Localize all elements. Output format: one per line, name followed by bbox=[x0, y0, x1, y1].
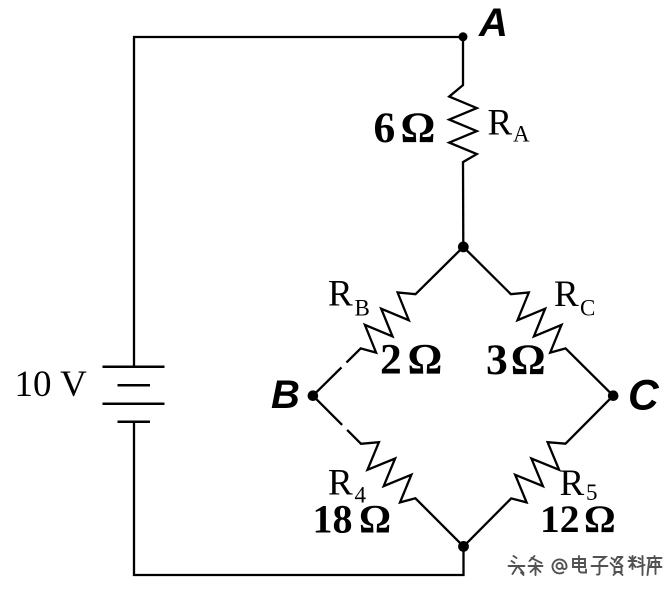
svg-text:Ω: Ω bbox=[359, 497, 391, 542]
watermark glyph 头 bbox=[509, 556, 525, 575]
watermark text: toutiao@dianzi ziliaoku bbox=[509, 556, 662, 575]
resistor R4 zigzag on diagonal B-bottom bbox=[313, 396, 464, 547]
svg-text:6: 6 bbox=[374, 104, 396, 152]
wire: RA to center node bbox=[462, 162, 465, 247]
svg-text:A: A bbox=[513, 122, 530, 147]
node C junction dot bbox=[608, 390, 619, 401]
svg-text:B: B bbox=[271, 373, 300, 417]
battery V1 long plate 1 bbox=[103, 366, 165, 369]
svg-text:3: 3 bbox=[486, 336, 508, 384]
wire gap artifact on B-R4 diagonal bbox=[339, 423, 349, 433]
node A junction dot bbox=[459, 32, 468, 41]
watermark glyph 库 bbox=[648, 556, 662, 575]
svg-text:Ω: Ω bbox=[584, 497, 616, 541]
wire gap artifact on B-RB diagonal bbox=[339, 360, 349, 370]
svg-text:Ω: Ω bbox=[511, 336, 546, 384]
resistor RA zigzag bbox=[449, 85, 477, 162]
svg-text:R: R bbox=[328, 274, 353, 315]
svg-text:Ω: Ω bbox=[401, 104, 436, 152]
center node junction dot bbox=[458, 242, 469, 253]
svg-text:2: 2 bbox=[380, 336, 402, 384]
svg-text:C: C bbox=[628, 373, 660, 420]
watermark glyph @ bbox=[553, 559, 567, 573]
svg-text:C: C bbox=[580, 296, 595, 321]
watermark glyph 子 bbox=[592, 557, 608, 575]
svg-text:A: A bbox=[478, 1, 508, 45]
wire: bottom node to bottom rail, rail back to battery - terminal bbox=[134, 422, 464, 575]
svg-text:R: R bbox=[554, 274, 579, 315]
resistor RC zigzag on diagonal center-C bbox=[463, 247, 613, 396]
resistor RB zigzag on diagonal center-B bbox=[313, 247, 463, 396]
node B junction dot bbox=[308, 390, 319, 401]
resistor R5 zigzag on diagonal C-bottom bbox=[464, 396, 614, 547]
watermark glyph 资 bbox=[611, 557, 623, 575]
watermark glyph 料 bbox=[629, 556, 645, 575]
svg-text:10 V: 10 V bbox=[15, 364, 88, 405]
wire: left rail and top rail from battery + terminal to node A bbox=[134, 37, 463, 367]
svg-text:12: 12 bbox=[540, 497, 580, 541]
battery V1 short plate 2 bbox=[118, 420, 151, 423]
svg-text:Ω: Ω bbox=[408, 336, 443, 384]
watermark glyph 电 bbox=[573, 556, 586, 573]
wire: node A down to resistor RA bbox=[462, 37, 464, 85]
svg-text:B: B bbox=[355, 296, 370, 321]
watermark glyph 条 bbox=[529, 556, 543, 575]
battery V1 short plate 1 bbox=[118, 384, 151, 387]
svg-text:R: R bbox=[488, 102, 513, 143]
bottom node junction dot bbox=[458, 541, 469, 552]
battery V1 long plate 2 bbox=[103, 402, 165, 405]
svg-text:18: 18 bbox=[313, 497, 353, 542]
